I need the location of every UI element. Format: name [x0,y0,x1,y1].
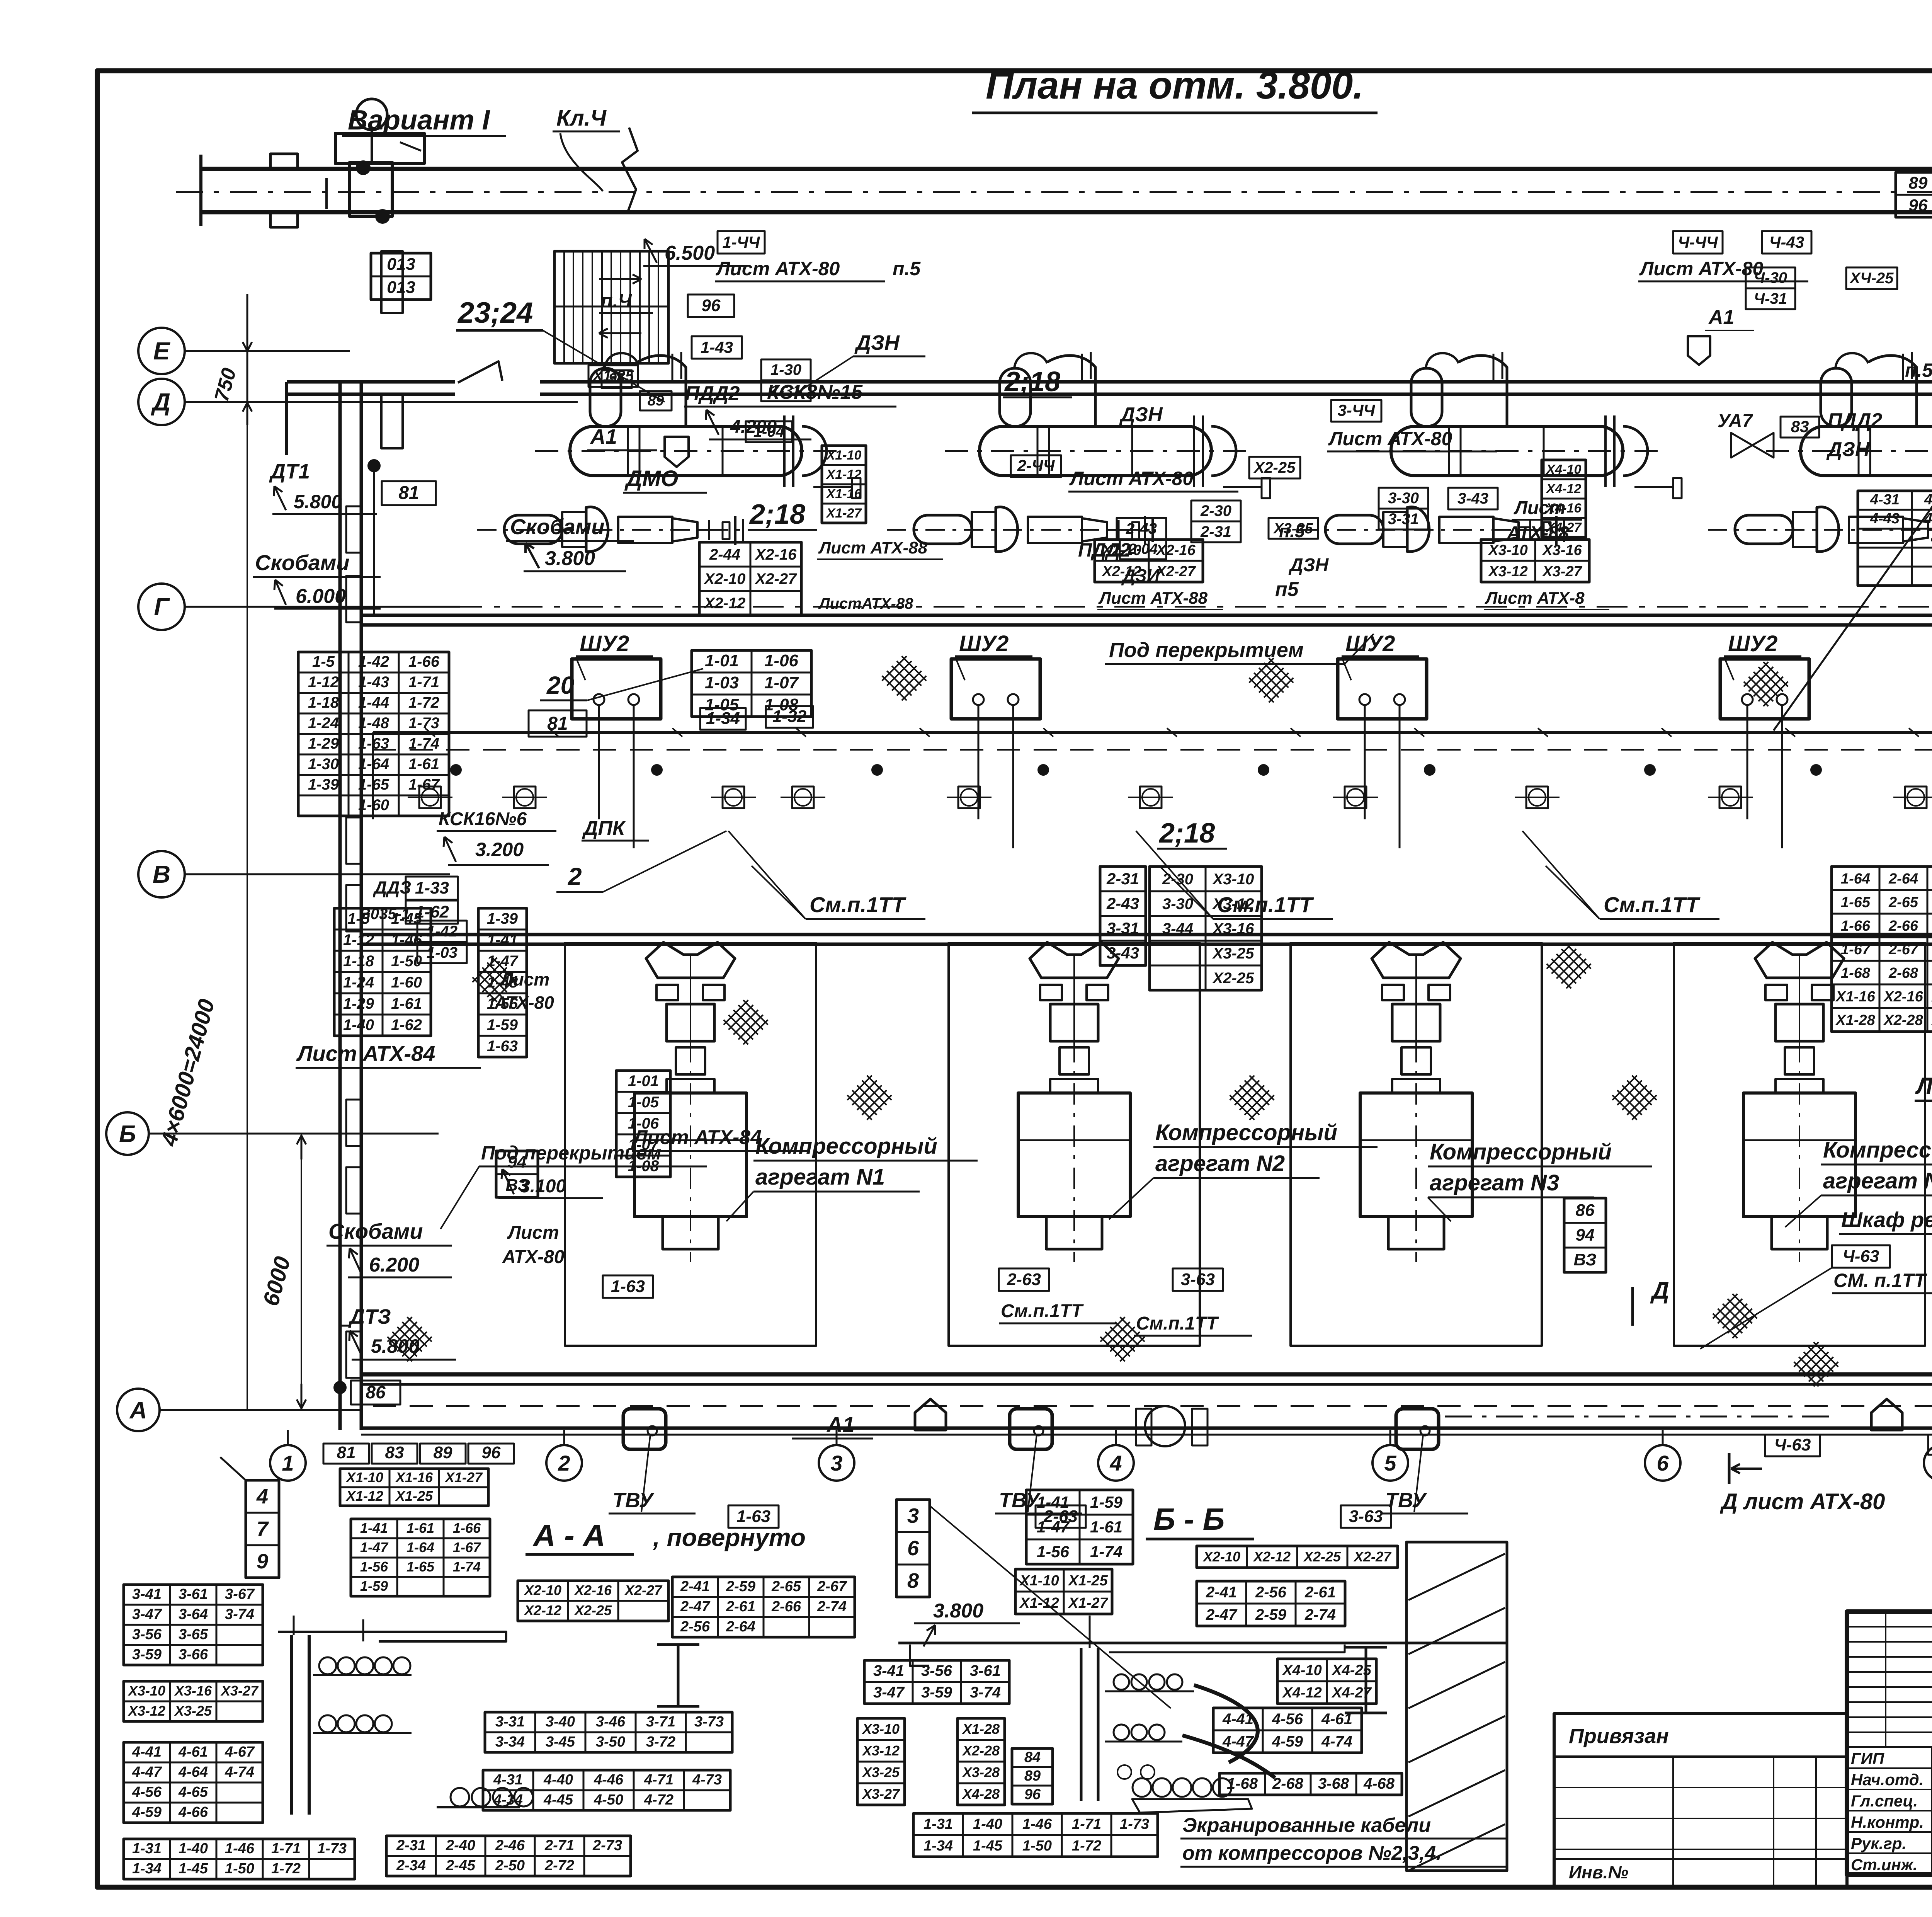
section A-A drawing: column and trays [290,1635,293,1815]
svg-text:Д лист АТХ-80: Д лист АТХ-80 [1719,1489,1885,1514]
leader line variant II [1774,124,1932,730]
svg-text:2-40: 2-40 [446,1837,475,1854]
svg-text:Компрессорный: Компрессорный [1155,1120,1337,1145]
svg-text:Х2-10: Х2-10 [524,1582,561,1598]
svg-text:2-67: 2-67 [1888,941,1919,958]
svg-text:Х2-27: Х2-27 [755,570,797,587]
svg-text:Под перекрытием: Под перекрытием [1109,638,1304,662]
svg-text:Х3-12: Х3-12 [1488,564,1527,580]
axis bubble А [117,1389,160,1431]
svg-text:81: 81 [337,1443,356,1462]
svg-text:агрегат N4: агрегат N4 [1823,1168,1932,1193]
svg-text:Д: Д [151,388,170,416]
svg-text:013: 013 [387,255,415,274]
svg-text:3-50: 3-50 [596,1734,625,1750]
box 81 left [382,481,436,505]
left wall pilasters [346,506,361,553]
cross-hatch marker [879,654,929,703]
svg-text:6: 6 [1656,1451,1669,1475]
svg-text:ВЗ: ВЗ [1574,1250,1597,1269]
svg-text:4-59: 4-59 [1272,1733,1303,1750]
svg-text:6.000: 6.000 [296,585,346,608]
svg-text:1-42: 1-42 [427,923,457,940]
cross-hatch marker [1227,1073,1276,1122]
svg-text:1-64: 1-64 [1841,871,1870,887]
svg-text:Ч-30: Ч-30 [1754,269,1787,286]
svg-text:2-66: 2-66 [771,1599,801,1615]
ShU2 cabinet 3 [1338,659,1427,719]
svg-text:ДЗН: ДЗН [1119,403,1163,426]
svg-text:ПДД2: ПДД2 [685,382,740,405]
svg-text:Кл.Ч: Кл.Ч [556,106,607,131]
svg-text:Х1-12: Х1-12 [826,467,862,482]
wall axis Д (top interior wall) [287,380,455,384]
rail break mark left [622,128,638,213]
svg-text:7: 7 [257,1517,269,1541]
svg-text:Х3-28: Х3-28 [962,1764,1000,1780]
table 1-01..1-08 [692,650,811,717]
svg-text:20: 20 [546,671,574,699]
svg-text:1-67: 1-67 [453,1539,481,1555]
revision grid columns [1885,1612,1886,1747]
svg-text:1-41: 1-41 [1037,1493,1069,1511]
svg-text:агрегат N3: агрегат N3 [1430,1170,1559,1195]
svg-text:86: 86 [366,1382,386,1402]
svg-text:Х2-28: Х2-28 [1883,1012,1923,1028]
svg-text:Х3-10: Х3-10 [862,1721,900,1737]
svg-text:3.800: 3.800 [933,1600,983,1622]
svg-text:п.5: п.5 [893,258,921,279]
boxes 1-63 / 2-63 / 3-63 bay bottoms [603,1275,653,1298]
svg-text:Лист АТХ-88: Лист АТХ-88 [818,538,928,557]
svg-text:1-5: 1-5 [312,653,335,670]
axis bubble 7 [1924,1445,1932,1481]
svg-text:2-30: 2-30 [1162,871,1193,888]
svg-text:4-71: 4-71 [644,1772,673,1788]
B-B cable circles row1 [1114,1674,1129,1690]
svg-text:Х2-27: Х2-27 [1353,1549,1392,1565]
svg-text:Х1-27: Х1-27 [444,1469,483,1485]
svg-text:3-47: 3-47 [873,1684,905,1701]
svg-text:Х2-12: Х2-12 [1253,1549,1291,1565]
svg-text:4-67: 4-67 [224,1744,255,1760]
wall axis Г [361,614,1932,617]
svg-text:2-56: 2-56 [680,1619,710,1635]
svg-text:2-41: 2-41 [680,1578,710,1595]
svg-text:Лист АТХ-80: Лист АТХ-80 [716,258,840,279]
axis bubble 6 [1645,1445,1680,1481]
svg-text:4-74: 4-74 [1321,1733,1352,1750]
svg-text:2-61: 2-61 [1304,1584,1336,1601]
svg-text:2-56: 2-56 [1255,1584,1287,1601]
svg-text:Х4-25: Х4-25 [1331,1662,1371,1679]
box X3-25 [1269,518,1318,539]
svg-text:Х2-27: Х2-27 [624,1582,663,1598]
svg-text:3-63: 3-63 [1349,1507,1383,1526]
box 1-04 [746,421,792,442]
svg-text:1-61: 1-61 [406,1520,434,1536]
svg-text:Х4-10: Х4-10 [1282,1662,1321,1679]
svg-text:3.800: 3.800 [545,547,595,570]
svg-text:1-40: 1-40 [179,1840,208,1857]
ShU2 cabinet 2 [951,659,1040,719]
svg-text:А1: А1 [826,1412,855,1437]
svg-text:2-47: 2-47 [1206,1606,1238,1623]
svg-text:Гл.спец.: Гл.спец. [1851,1792,1918,1810]
svg-text:3-31: 3-31 [1107,919,1139,937]
svg-text:2-73: 2-73 [592,1837,622,1854]
svg-text:4-40: 4-40 [543,1772,573,1788]
svg-text:83: 83 [385,1443,404,1462]
cross-hatch marker [1544,941,1593,991]
dimension 4x6000=24000 [247,402,248,1410]
svg-text:Х4-12: Х4-12 [1546,482,1582,496]
svg-text:1-29: 1-29 [343,995,374,1012]
svg-text:3-73: 3-73 [694,1714,724,1730]
svg-text:1-62: 1-62 [391,1016,422,1033]
axis Г dash-dot [270,606,1932,608]
svg-text:2-72: 2-72 [544,1857,574,1874]
svg-text:6: 6 [907,1537,919,1560]
svg-text:1-50: 1-50 [225,1861,254,1877]
svg-text:3-64: 3-64 [179,1606,208,1622]
svg-text:А1: А1 [590,425,617,448]
dash-dot bottom right segment [1445,1416,1832,1418]
stack 3/6/8 [896,1500,930,1597]
svg-text:3: 3 [830,1451,842,1475]
B-B bottom cable circles [1133,1778,1151,1797]
stair block top-left [554,251,668,363]
svg-text:Скобами: Скобами [328,1219,423,1243]
svg-text:1-59: 1-59 [1090,1493,1123,1511]
svg-text:1-01: 1-01 [705,651,739,670]
heat exchanger group 4 [1708,352,1932,552]
svg-text:3: 3 [907,1504,919,1527]
pentagon hood symbols bottom [915,1399,946,1430]
svg-text:ДТ1: ДТ1 [269,460,310,483]
svg-text:4-74: 4-74 [224,1764,254,1780]
svg-text:1-ЧЧ: 1-ЧЧ [723,233,760,251]
dimension 750 [247,294,248,402]
svg-text:1-32: 1-32 [772,707,807,726]
svg-text:1-63: 1-63 [487,1038,518,1055]
svg-text:4-45: 4-45 [543,1792,573,1808]
svg-text:4-50: 4-50 [594,1792,623,1808]
svg-text:Х2-16: Х2-16 [1883,989,1923,1005]
svg-text:4-30: 4-30 [1924,492,1932,508]
svg-text:1-34: 1-34 [132,1861,162,1877]
crane rail left end stop [199,155,202,226]
svg-text:3-44: 3-44 [1162,920,1193,937]
I-beam symbol right [657,1645,699,1706]
svg-text:Вариант I: Вариант I [348,105,491,136]
svg-text:1-47: 1-47 [360,1539,389,1555]
svg-text:1-01: 1-01 [628,1073,659,1090]
svg-text:1-72: 1-72 [408,694,439,711]
svg-text:89: 89 [1909,174,1928,192]
svg-text:Лист АТХ-84: Лист АТХ-84 [296,1041,435,1066]
svg-text:1-06: 1-06 [764,651,799,670]
svg-text:Х2-16: Х2-16 [1155,542,1196,558]
axis line E [185,350,350,352]
svg-text:1-61: 1-61 [391,995,422,1012]
svg-text:Х3-10: Х3-10 [128,1683,165,1699]
svg-text:ТВУ: ТВУ [612,1489,655,1512]
svg-text:1-42: 1-42 [358,653,389,670]
svg-text:1-48: 1-48 [358,715,389,732]
svg-text:См.п.1ТТ: См.п.1ТТ [1001,1301,1084,1321]
svg-text:Х4-10: Х4-10 [1546,462,1582,477]
svg-text:1-73: 1-73 [1120,1816,1149,1832]
fastening ticks along tray [425,728,435,737]
svg-text:1-74: 1-74 [408,735,439,752]
cross-hatch marker [470,955,519,1004]
door peak on wall Д [458,361,502,383]
svg-text:Е: Е [153,337,171,365]
svg-text:Х1-16: Х1-16 [1835,989,1875,1005]
svg-text:АТХ-80: АТХ-80 [502,1247,565,1267]
svg-text:3-74: 3-74 [970,1684,1001,1701]
labels УА8 / А1 / КСК16№13 [1928,1435,1932,1455]
svg-text:п.5: п.5 [1905,359,1932,381]
svg-text:Лист АТХ-80: Лист АТХ-80 [1328,428,1452,449]
heat exchanger group 1 [477,352,861,552]
svg-text:4.200: 4.200 [730,417,777,437]
table X2 group2 [1095,540,1203,582]
axis bubble 2 [546,1445,582,1481]
svg-text:АТХ-88: АТХ-88 [1507,523,1569,543]
label Ch-63 Sm.p.1TT [1832,1245,1890,1268]
svg-text:1-24: 1-24 [343,974,374,991]
svg-text:1-71: 1-71 [271,1840,301,1857]
svg-text:2-68: 2-68 [1272,1775,1304,1792]
table X2 right of A-A [518,1581,668,1621]
svg-text:89: 89 [648,393,664,409]
table 1-5 column axis В [334,908,431,1036]
table 2-31 bottom [386,1836,631,1876]
cable run along axis А [373,1405,1932,1407]
boxes bottom: 1-63 2-63 3-63 4-63 labels [728,1505,779,1528]
heat exchanger group 3 [1298,352,1682,552]
svg-text:2;18: 2;18 [1158,818,1215,849]
svg-text:ПДД2: ПДД2 [1078,539,1131,561]
cross-hatch marker [1098,1314,1147,1364]
svg-text:4: 4 [256,1485,268,1508]
svg-text:3-43: 3-43 [1107,944,1139,962]
svg-text:1-50: 1-50 [1022,1838,1052,1854]
svg-text:2-59: 2-59 [1255,1606,1287,1623]
svg-text:1-34: 1-34 [706,709,740,728]
axis bubble В [138,851,185,897]
svg-text:ДЗН: ДЗН [1288,555,1329,575]
svg-text:2-61: 2-61 [726,1599,755,1615]
svg-text:3.200: 3.200 [475,839,524,860]
svg-text:83: 83 [1791,417,1809,436]
svg-text:АТХ-80: АТХ-80 [494,993,554,1013]
funnel A1 machine4 [1688,336,1710,365]
svg-text:Под перекрытием: Под перекрытием [481,1142,661,1164]
svg-text:Б: Б [119,1121,136,1147]
boxes X1-25 1-30/1-31 near machine1 [588,365,638,387]
svg-text:4-66: 4-66 [178,1804,208,1820]
svg-text:2: 2 [558,1451,570,1475]
junction dots row 1 [451,765,461,775]
svg-text:3-59: 3-59 [921,1684,952,1701]
machine2 area labels [1011,455,1061,477]
svg-text:4-31: 4-31 [1870,492,1900,508]
svg-text:96: 96 [482,1443,501,1462]
ShU2 cabinet 1 [572,659,661,719]
machine2 boxes 2-43/2-30/2-31 [1117,518,1166,540]
svg-text:1-68: 1-68 [1227,1775,1258,1792]
svg-text:1-66: 1-66 [1841,918,1871,934]
machine3 labels [1331,400,1381,422]
svg-text:3-30: 3-30 [1388,490,1419,507]
box 1-43 top [692,336,742,359]
svg-text:1-61: 1-61 [408,756,439,773]
svg-text:1-31: 1-31 [923,1816,953,1832]
table 4-31 right [483,1770,730,1810]
svg-text:81: 81 [547,713,568,734]
svg-text:2-50: 2-50 [495,1857,525,1874]
svg-text:95: 95 [609,371,625,387]
svg-text:4-61: 4-61 [1321,1711,1352,1728]
compressor unit N2 [1018,942,1130,1262]
svg-text:ДДЗ: ДДЗ [372,877,411,897]
svg-text:96: 96 [702,296,721,315]
svg-text:Ч-63: Ч-63 [1774,1435,1811,1454]
stack 4/7/9 [246,1480,279,1578]
box 94/ВЗ left [496,1151,538,1197]
thick cable curves B-B [1194,1685,1258,1762]
svg-text:1-30: 1-30 [308,756,339,773]
heat exchanger group 2 [887,352,1270,552]
svg-text:4-47: 4-47 [1222,1733,1254,1750]
svg-text:4-72: 4-72 [644,1792,673,1808]
table X1 under axis1 [340,1469,488,1506]
svg-text:См.п.1ТТ: См.п.1ТТ [1136,1313,1219,1334]
svg-text:ГИП: ГИП [1851,1749,1884,1767]
top room walls (operator rooms) [285,382,288,455]
svg-text:3.100: 3.100 [520,1176,566,1197]
svg-text:2-ЧЧ: 2-ЧЧ [1017,456,1055,475]
svg-text:Х1-16: Х1-16 [826,487,862,501]
svg-text:1-43: 1-43 [358,674,389,691]
svg-text:4-41: 4-41 [1222,1711,1253,1728]
crane rail lower chord [201,210,1932,215]
svg-text:2-44: 2-44 [709,546,740,563]
svg-text:Х2-12: Х2-12 [524,1602,561,1618]
tray vertical at left [372,732,374,819]
svg-text:См.п.1ТТ: См.п.1ТТ [1604,892,1701,917]
svg-text:1-61: 1-61 [1090,1518,1122,1536]
trolley variant I [356,99,387,130]
bottom exterior wall [361,1427,1932,1430]
svg-text:3-59: 3-59 [132,1646,162,1663]
axis bubble Е [138,328,185,374]
ShU2 cabinet 4 [1720,659,1809,719]
svg-text:2;18: 2;18 [749,499,805,530]
svg-text:Х2-25: Х2-25 [1253,459,1296,476]
svg-text:2-43: 2-43 [1106,894,1139,913]
svg-text:2: 2 [568,863,582,890]
valve/instrument symbols on tray row 1 [419,787,441,808]
svg-text:4-59: 4-59 [132,1804,162,1820]
svg-text:4-65: 4-65 [178,1784,208,1800]
box 89 small [640,391,672,410]
svg-text:2-41: 2-41 [1206,1584,1237,1601]
cross-hatch marker [1247,655,1296,705]
svg-text:Ст.инж.: Ст.инж. [1851,1856,1917,1874]
svg-text:3-63: 3-63 [1181,1270,1215,1289]
svg-text:2-64: 2-64 [726,1619,755,1635]
svg-text:Лист АТХ-80: Лист АТХ-80 [1639,258,1763,279]
svg-text:Лист АТХ-88: Лист АТХ-88 [1098,589,1208,608]
svg-text:КСК16№6: КСК16№6 [439,809,527,829]
svg-text:Х3-16: Х3-16 [1542,542,1582,558]
svg-text:2-74: 2-74 [1304,1606,1336,1623]
svg-text:В: В [153,860,170,888]
box 013/013 [371,253,431,300]
svg-text:Ч-63: Ч-63 [1843,1247,1879,1266]
svg-text:Скобами: Скобами [510,514,604,539]
svg-text:1-41: 1-41 [487,931,518,948]
svg-text:3-34: 3-34 [495,1734,525,1750]
axis bubble Д [138,379,185,425]
svg-text:ДЗИ: ДЗИ [1121,565,1160,586]
svg-text:3-67: 3-67 [225,1586,255,1602]
svg-text:Д: Д [1650,1277,1669,1304]
svg-text:1-47: 1-47 [1037,1518,1070,1536]
svg-text:96: 96 [1909,196,1928,215]
circle symbol bottom [1145,1406,1185,1446]
table 3-31 right [485,1712,732,1752]
DDZ B035-1 labels [406,877,458,900]
svg-text:Лист: Лист [507,1222,559,1243]
hatched wall right of B-B [1406,1542,1507,1871]
box X2-25 top [1249,457,1300,478]
svg-text:3-68: 3-68 [1318,1775,1349,1792]
svg-text:Х3-16: Х3-16 [1212,920,1254,937]
svg-text:Х1-25: Х1-25 [395,1488,433,1504]
valve symbol УА7 [1731,433,1774,458]
label 6.500 [645,239,657,263]
svg-text:89: 89 [434,1443,452,1462]
svg-text:агрегат N2: агрегат N2 [1155,1151,1285,1176]
cross-hatch marker [1710,1291,1759,1340]
svg-text:1-74: 1-74 [1090,1542,1122,1561]
svg-text:86: 86 [1576,1201,1595,1220]
svg-text:Х2-10: Х2-10 [704,570,746,587]
TVU boxes and labels [623,1409,666,1449]
svg-text:1-46: 1-46 [225,1840,255,1857]
svg-text:2-31: 2-31 [1106,870,1139,888]
svg-text:1-71: 1-71 [1072,1816,1101,1832]
svg-text:1-46: 1-46 [1022,1816,1052,1832]
svg-text:4-43: 4-43 [1870,511,1900,527]
svg-text:1-64: 1-64 [406,1539,434,1555]
box 86 [351,1381,400,1405]
svg-text:Х3-27: Х3-27 [1542,564,1582,580]
svg-text:2-34: 2-34 [396,1857,426,1874]
svg-text:4-73: 4-73 [692,1772,722,1788]
svg-text:Х2-16: Х2-16 [574,1582,612,1598]
svg-text:Экранированные кабели: Экранированные кабели [1182,1814,1431,1837]
machine4 labels [1673,231,1723,254]
svg-text:Х3-25: Х3-25 [1273,521,1313,537]
svg-text:4-68: 4-68 [1363,1775,1395,1792]
svg-text:2-68: 2-68 [1888,965,1918,981]
